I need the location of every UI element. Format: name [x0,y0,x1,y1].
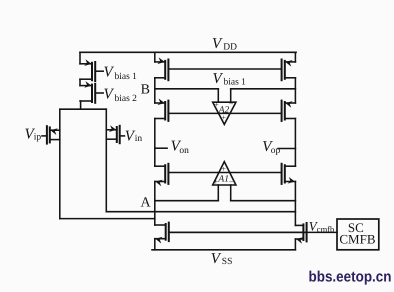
Vcmfb gate line M9-M10 [169,231,307,233]
svg-text:on: on [179,146,189,156]
svg-text:+: + [222,113,227,122]
svg-text:A1: A1 [217,175,229,185]
right cascode node wire to A1 - input [231,200,296,202]
nmos M10 tail right [295,223,337,244]
V_in label [125,128,143,144]
watermark bbs.eetop.cn [309,269,392,286]
node B wire to A2 + input [155,88,219,90]
svg-text:+: + [214,178,219,187]
node A label [141,196,152,211]
svg-text:CMFB: CMFB [339,232,375,247]
pmos M1 input Vip [42,126,60,143]
wire M3 drain to node B / M5 source [154,78,156,103]
svg-text:B: B [141,83,150,98]
wire M2 drain down [105,109,107,212]
svg-text:cmfb: cmfb [317,224,334,234]
V_on label [171,139,190,156]
wire M1 drain down [59,109,61,218]
svg-text:−: − [229,100,234,109]
svg-text:ip: ip [34,133,42,143]
node B label [141,83,150,98]
svg-text:op: op [271,146,281,156]
VSS rail [152,249,295,251]
wire M10 source to VSS [294,239,296,250]
svg-text:bias 2: bias 2 [115,94,138,104]
wire M6 drain to M8 drain (Vop node) [294,119,296,167]
pmos M4 [282,59,296,81]
wire bias1 drain to bias2 source [79,79,81,85]
nmos M9 tail left [155,223,307,244]
node A wire to A1 + input [155,200,219,202]
wire M7 source to node A / M9 drain [154,182,156,226]
svg-text:A: A [141,196,152,211]
svg-text:bbs.eetop.cn: bbs.eetop.cn [309,269,392,286]
V_bias1 center label [213,71,247,88]
wire M2 drain to right branch cascode node [106,211,295,213]
wire M5 drain to M7 drain (Von node) [154,119,156,167]
svg-text:+: + [214,100,219,109]
svg-text:SS: SS [222,257,233,267]
svg-text:+: + [222,165,227,174]
svg-text:DD: DD [223,42,237,52]
svg-text:−: − [229,178,234,187]
wire bias2 drain to input-pair tail [80,101,82,109]
right node wire to A2 - input [231,88,296,90]
V_op output stub [278,148,295,150]
gate line M7-M8 driven by A1 [168,172,281,174]
V_ip label [25,126,42,142]
pmos M3 [155,57,169,80]
V_bias2 label [104,86,138,104]
pmos bias2 [80,81,103,103]
wire M8 source to M10 drain [294,182,296,226]
svg-text:bias 1: bias 1 [115,72,138,82]
SC CMFB block [337,219,379,250]
wire VDD to M3 source [154,52,156,62]
op-amp A2 [213,89,236,125]
wire VDD down to bias pmos [79,52,81,64]
V_SS label [211,251,233,267]
wire VDD to M4 source [294,52,296,62]
nmos M8 cascode [282,164,296,185]
V_bias1 label [104,64,138,82]
wire M9 source to VSS [154,239,156,250]
gate line M5-M6 driven by A2 [168,112,281,114]
VDD rail [80,51,296,53]
pmos bias1 [80,59,103,81]
V_op label [262,139,280,156]
pmos M6 cascode [282,100,296,121]
pmos M5 cascode [155,98,169,120]
svg-text:in: in [135,134,143,144]
svg-text:bias 1: bias 1 [224,78,247,88]
wire M4 drain to M6 source [294,78,296,103]
input pair source rail [60,108,107,110]
V_DD label [212,36,237,52]
Vbias1 gate line M3-M4 [168,68,281,70]
wire M1 drain to node A (left branch) [60,218,155,220]
V_on output stub [155,147,167,149]
op-amp A1 [213,162,236,201]
V_cmfb label [309,218,334,234]
pmos M2 input Vin [106,125,124,143]
nmos M7 cascode [155,164,169,186]
